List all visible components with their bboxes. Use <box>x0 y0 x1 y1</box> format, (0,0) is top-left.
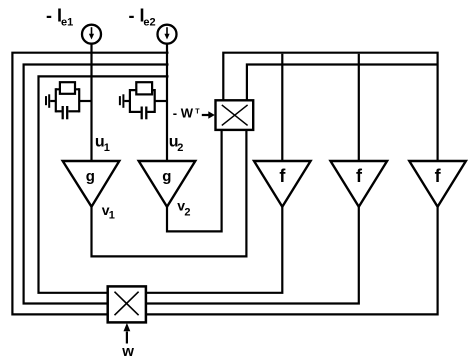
svg-text:e2: e2 <box>143 16 155 28</box>
svg-text:e1: e1 <box>61 16 73 28</box>
svg-text:- I: - I <box>129 5 145 25</box>
svg-text:2: 2 <box>177 142 183 154</box>
svg-text:f: f <box>279 166 286 186</box>
svg-text:f: f <box>435 166 442 186</box>
svg-text:- I: - I <box>46 5 62 25</box>
svg-text:f: f <box>356 166 363 186</box>
svg-text:- W: - W <box>173 106 194 121</box>
svg-text:1: 1 <box>104 142 110 154</box>
svg-text:w: w <box>121 343 134 360</box>
svg-text:2: 2 <box>184 207 190 219</box>
svg-text:T: T <box>195 108 200 115</box>
svg-text:1: 1 <box>109 210 115 222</box>
svg-text:g: g <box>86 168 95 185</box>
svg-text:g: g <box>162 168 171 185</box>
